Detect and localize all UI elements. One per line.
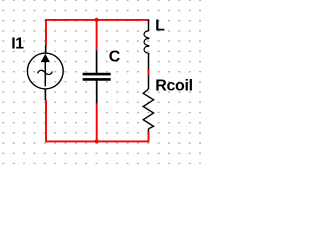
- wire between L and Rcoil: [148, 70, 150, 76]
- wire bottom: node from I1 bottom via junction to Rcoil bottom: [46, 100, 149, 141]
- label C: [109, 48, 121, 65]
- svg-text:C: C: [109, 48, 121, 65]
- label L: [155, 18, 165, 35]
- inductor L: [144, 20, 149, 70]
- wire capacitor top drop: [96, 20, 98, 50]
- capacitor C: [83, 50, 111, 103]
- resistor Rcoil: [143, 75, 153, 131]
- label I1: [11, 36, 24, 53]
- grid background: [0, 0, 204, 164]
- svg-text:Rcoil: Rcoil: [155, 77, 193, 94]
- svg-text:L: L: [155, 18, 165, 35]
- wire top: node from I1 top via junction to L top: [46, 20, 149, 46]
- label Rcoil: [155, 77, 193, 94]
- current source I1: [27, 45, 63, 100]
- wire capacitor bottom drop: [96, 103, 98, 141]
- svg-text:I1: I1: [11, 36, 24, 53]
- node junction bottom: [95, 139, 99, 143]
- node junction top: [95, 18, 99, 22]
